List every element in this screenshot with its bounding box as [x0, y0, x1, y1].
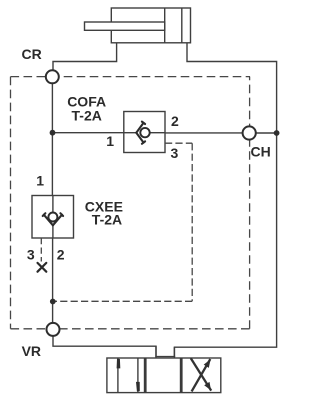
valve stub right: [173, 347, 175, 356]
arrow up on left cell line 1: [117, 359, 121, 369]
COFA check symbol seat: [136, 122, 145, 144]
svg-text:VR: VR: [22, 343, 41, 359]
valve divider right: [180, 358, 183, 393]
CXEE through line top: [52, 196, 54, 214]
COFA through line left: [124, 132, 137, 134]
valve top bridge: [155, 356, 175, 358]
svg-text:1: 1: [106, 133, 114, 149]
pilot dashed line COFA port3 to below CXEE: [55, 143, 192, 301]
svg-text:3: 3: [171, 145, 179, 161]
CXEE port3 dashed stub: [40, 238, 42, 262]
valve stub left: [155, 346, 157, 356]
node junction dot COFA port1 branch: [50, 130, 56, 136]
valve right cell X diagonal 1: [191, 358, 211, 390]
valve COFA box: [124, 112, 165, 153]
wire CXEE below to VR: [52, 238, 54, 322]
svg-text:T-2A: T-2A: [92, 212, 122, 228]
valve left cell arrow line up: [117, 358, 119, 393]
CXEE port3 plug X: [38, 263, 47, 272]
wire CR down to COFA junction and CXEE: [51, 84, 53, 196]
wire cylinder right leg down right side to valve: [174, 43, 276, 358]
COFA through line right: [150, 132, 165, 134]
COFA check symbol ball: [140, 128, 149, 137]
valve right cell X diagonal 2: [192, 359, 211, 391]
cylinder piston line 2: [181, 8, 183, 43]
arrowheads: [117, 359, 211, 391]
wire VR to valve left stub: [53, 336, 156, 357]
cylinder body: [111, 8, 190, 43]
port VR circle: [47, 323, 60, 336]
wire COFA port 1: [52, 132, 123, 134]
svg-text:T-2A: T-2A: [72, 107, 102, 123]
CXEE check symbol ball: [48, 213, 57, 222]
svg-text:CR: CR: [22, 46, 42, 62]
manifold boundary dashed top: [11, 77, 251, 329]
svg-text:2: 2: [171, 113, 179, 129]
arrow SE on X: [204, 382, 211, 391]
svg-text:CH: CH: [251, 144, 271, 160]
svg-text:3: 3: [27, 247, 35, 263]
cylinder piston line 1: [164, 8, 166, 43]
directional valve D03 body: [107, 358, 221, 393]
arrow down on left cell line 2: [136, 382, 140, 391]
svg-text:2: 2: [57, 247, 65, 263]
CXEE check symbol seat: [43, 213, 63, 225]
wire cylinder left leg to CR: [53, 43, 117, 70]
valve left cell arrow line down: [137, 358, 139, 393]
valve CXEE box: [32, 196, 74, 239]
node junction dot pilot branch: [50, 299, 56, 305]
cylinder rod: [85, 22, 165, 30]
valve divider left: [144, 358, 147, 393]
svg-text:1: 1: [36, 173, 44, 189]
port CH circle: [243, 126, 256, 139]
wire CH to right line: [256, 132, 276, 134]
CXEE through line bottom: [52, 225, 54, 238]
node junction dot CH right: [274, 130, 280, 136]
arrow NE on X: [204, 359, 211, 368]
port CR circle: [46, 70, 59, 83]
wire COFA port 2 to CH: [165, 132, 242, 134]
